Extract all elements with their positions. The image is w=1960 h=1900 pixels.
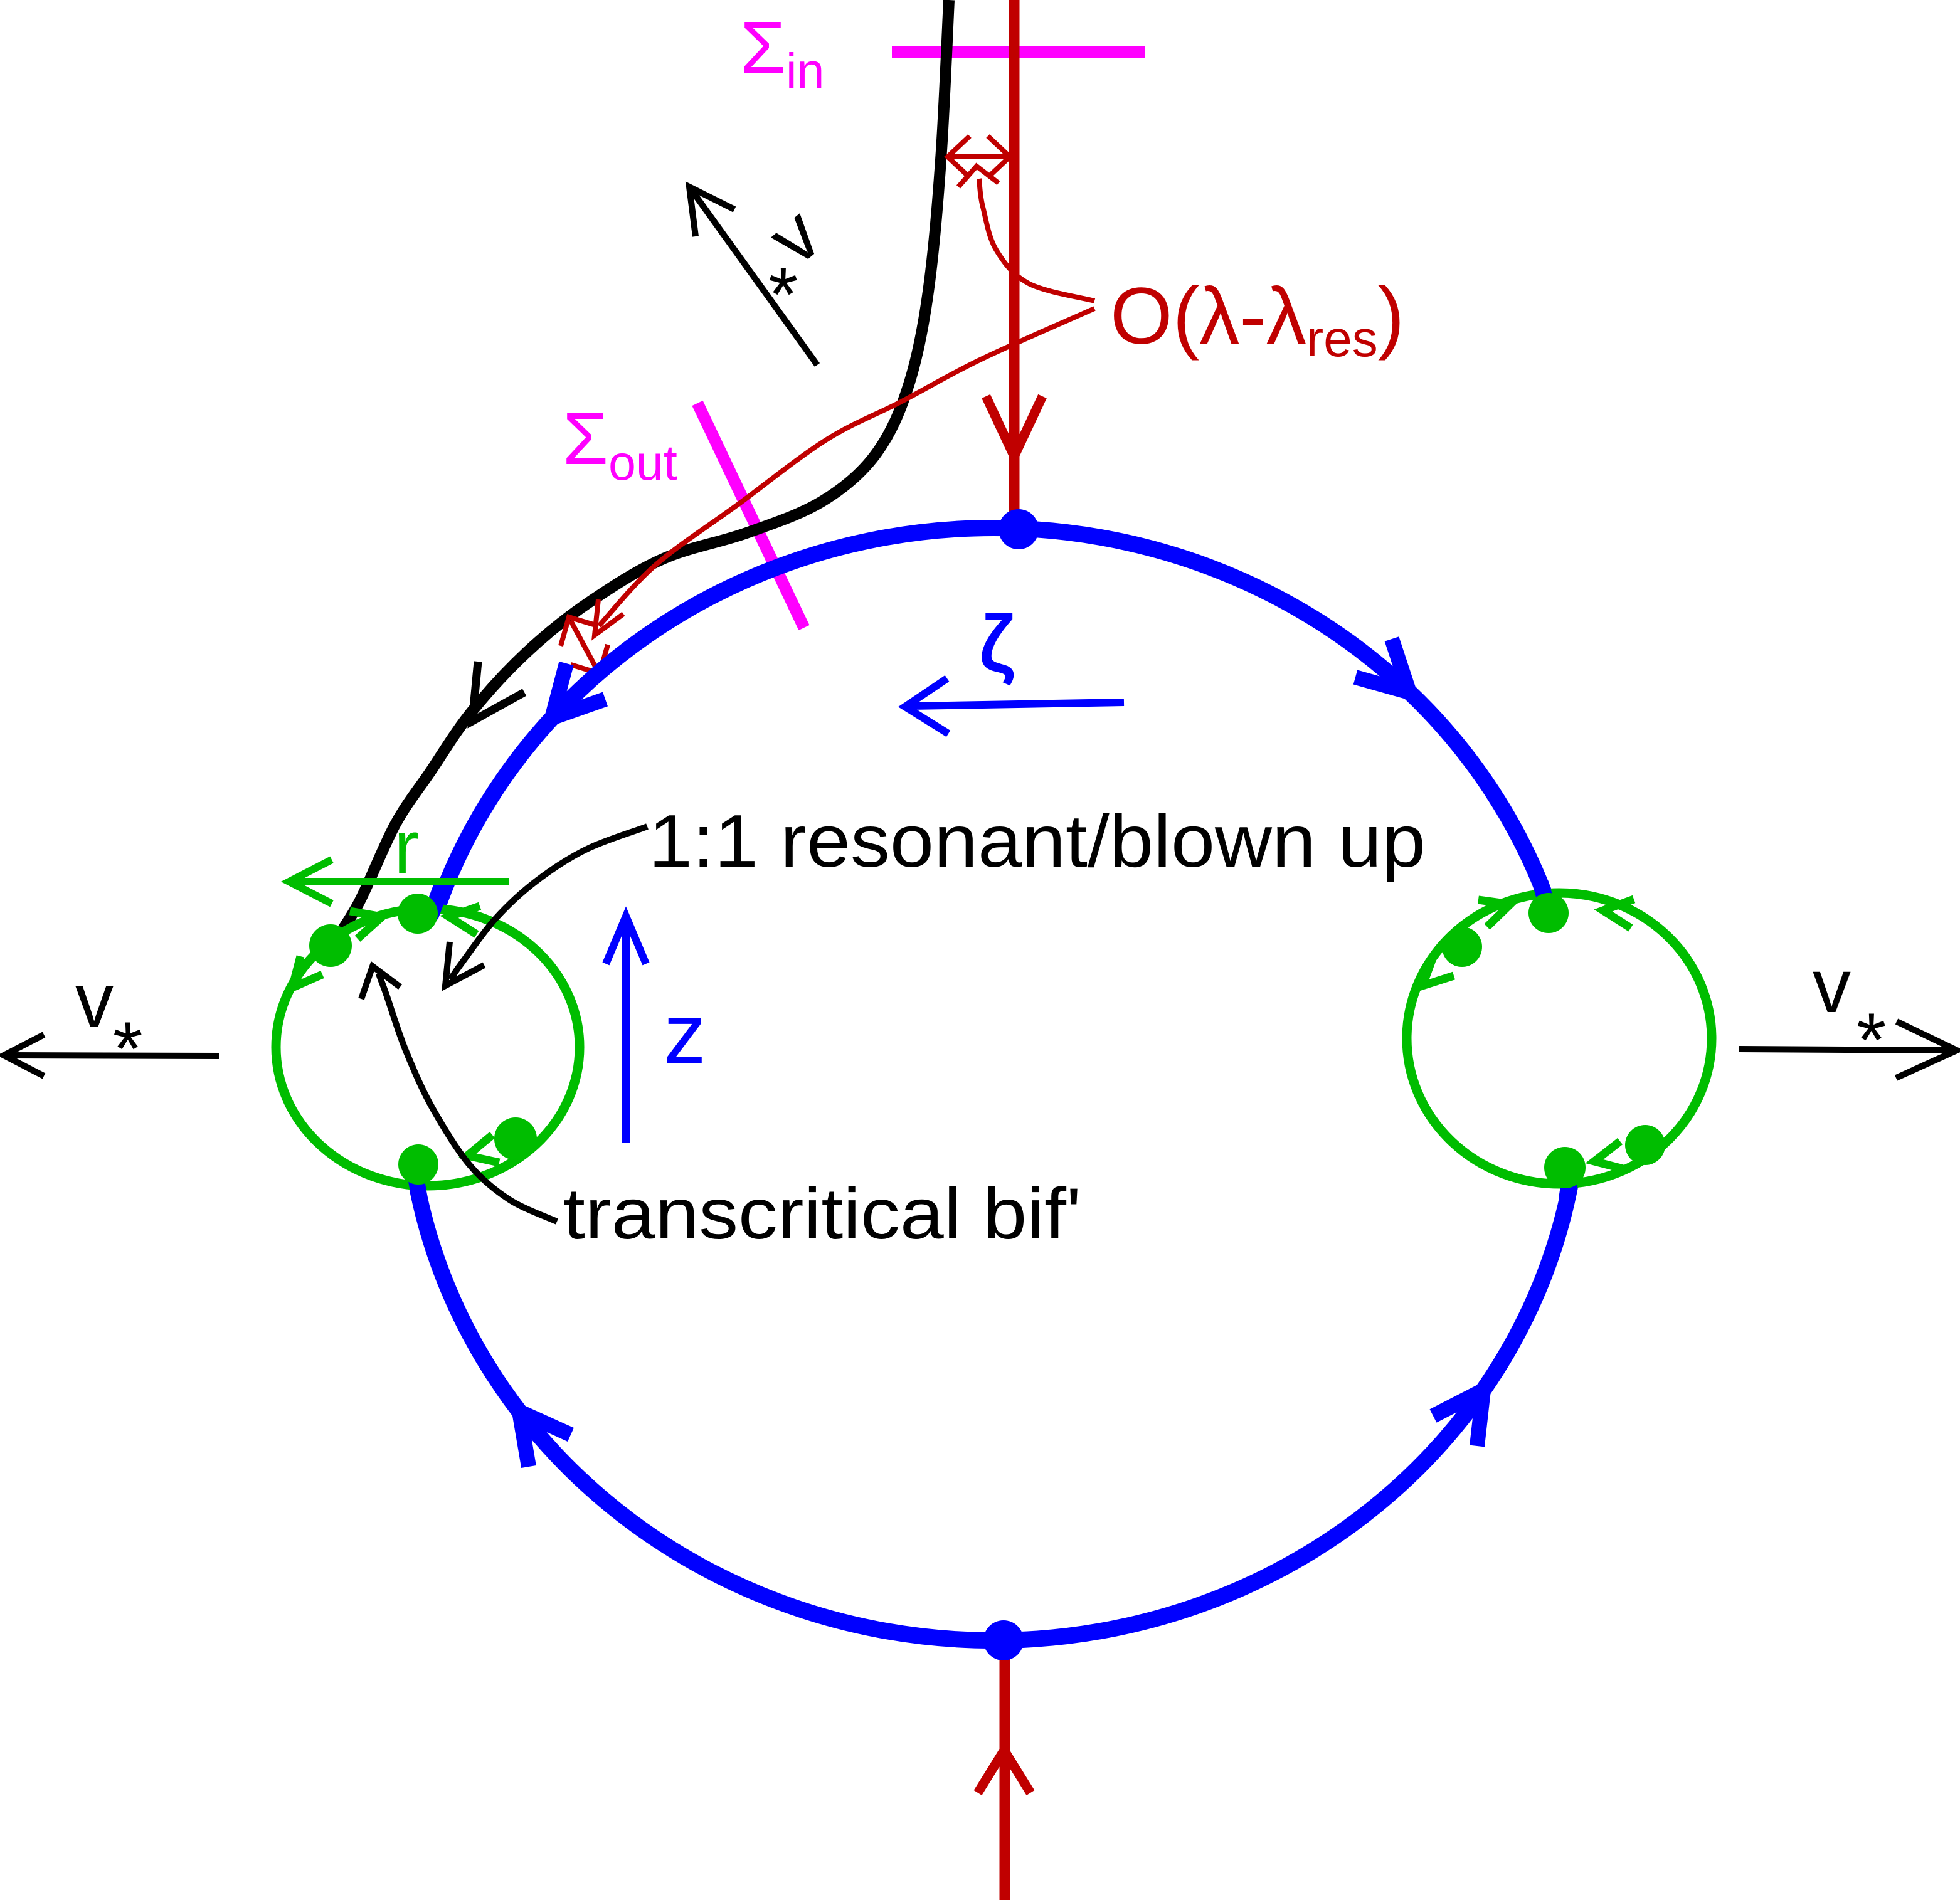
- green chevron left circle left side (down-left): [292, 956, 322, 988]
- green equilibrium dot, left circle lower-right: [494, 1117, 537, 1160]
- upper head of lower double arrow: [561, 617, 598, 646]
- svg-text:1:1 resonant/blown up: 1:1 resonant/blown up: [649, 800, 1426, 883]
- green chevron right circle left side (down-left): [1422, 955, 1454, 986]
- svg-text:*: *: [768, 251, 798, 337]
- svg-text:Σin: Σin: [740, 6, 824, 98]
- green chevron left circle top-right arc (toward top dot): [449, 906, 480, 934]
- arrowhead of transcritical leader: [361, 966, 400, 999]
- green equilibrium dot, right circle lower-right: [1625, 1125, 1665, 1165]
- svg-text:r: r: [394, 805, 419, 889]
- svg-text:*: *: [113, 1006, 142, 1091]
- blue equator stub into left circle top dot: [430, 883, 443, 917]
- arrowhead of right v* arrow: [1896, 1021, 1957, 1078]
- red thin leader curve from O(lambda) label to gap at Sigma_out: [599, 309, 1094, 626]
- blue z-axis arrow (pointing up): [622, 922, 630, 1143]
- arrowhead on black trajectory (down-left): [472, 662, 524, 721]
- green equilibrium dot, left circle top: [398, 894, 438, 934]
- section Sigma_in (magenta transversal line at top): [892, 46, 1145, 58]
- blue equilibrium dot at bottom of circle: [983, 1620, 1024, 1660]
- svg-text:v: v: [1813, 943, 1851, 1028]
- arrowhead of upper red leader (pointing up): [958, 166, 999, 187]
- svg-text:v: v: [75, 958, 114, 1043]
- green equilibrium dot, right circle bottom: [1544, 1147, 1586, 1188]
- blue equilibrium dot at top of circle: [999, 509, 1039, 549]
- green chevron right circle top-left arc (toward top dot): [1478, 900, 1510, 927]
- v* direction arrow far right (pointing right): [1739, 1049, 1951, 1050]
- blue chevron lower-left (flow up-left): [519, 1412, 571, 1467]
- black thin leader from label transcritical bif to left green circle: [379, 974, 557, 1222]
- black trajectory curve (singular orbit from Sigma_in to blown-up circle): [331, 0, 949, 947]
- green equilibrium dot, left circle bottom: [398, 1144, 438, 1185]
- svg-text:transcritical bif': transcritical bif': [563, 1174, 1081, 1254]
- blue equator stub out of left circle bottom dot: [413, 1159, 420, 1199]
- svg-text:z: z: [664, 986, 706, 1081]
- green chevron right circle top-right arc (toward top dot): [1603, 899, 1634, 928]
- green chevron right circle bottom (toward bottom dot): [1594, 1141, 1626, 1169]
- svg-text:*: *: [1857, 997, 1886, 1082]
- v* direction arrow top-left (diagonal): [692, 191, 817, 365]
- svg-text:O(λ-λres): O(λ-λres): [1110, 272, 1404, 367]
- blue arrowhead of zeta axis: [905, 678, 948, 734]
- arrowhead of 1:1 leader: [445, 942, 484, 986]
- black thin leader from label 1:1 resonant/blown up to left green circle: [450, 826, 647, 979]
- arrowhead of left v* arrow: [4, 1035, 44, 1076]
- red strong stable fiber entering from top (W^s of upper equilibrium): [1009, 0, 1020, 513]
- right head of top double arrow: [988, 136, 1010, 177]
- red thin leader curve from O(lambda) label to gap at Sigma_in: [979, 179, 1094, 301]
- blue equator stub out of right circle bottom dot: [1567, 1159, 1573, 1199]
- right green resonant circle: [1407, 893, 1712, 1184]
- green r-axis arrow (pointing left): [295, 878, 509, 885]
- red double-headed arrow (gap between trajectory and circle near Sigma_out): [571, 621, 598, 671]
- section Sigma_out (magenta transversal line, diagonal): [697, 403, 804, 628]
- green equilibrium dot, right circle top: [1528, 893, 1569, 933]
- red double-headed arrow (gap between trajectory and W^s near Sigma_in): [950, 154, 1007, 159]
- green chevron left circle top-left arc (toward top dot): [350, 911, 382, 939]
- svg-text:Σout: Σout: [563, 398, 677, 490]
- blue equator stub into right circle top dot: [1540, 883, 1550, 917]
- green equilibrium dot, left circle upper-left: [309, 924, 352, 967]
- green equilibrium dot, right circle upper-left: [1442, 927, 1482, 967]
- blue chevron upper-left (flow down-left): [552, 663, 605, 718]
- lower head of lower double arrow: [571, 645, 608, 673]
- arrowhead of lower red leader (down-left): [595, 599, 623, 635]
- blue blown-up sphere equator circle: [407, 528, 1580, 1640]
- left green resonant circle (1:1 resonant/blown up): [276, 909, 580, 1186]
- arrowhead of diagonal v* arrow: [689, 187, 734, 236]
- blue chevron upper-right (flow down-right): [1355, 639, 1409, 692]
- arrowhead on bottom red fiber (up): [978, 1750, 1030, 1793]
- green arrowhead of r axis: [289, 860, 332, 904]
- blue chevron lower-right (flow up-right): [1433, 1390, 1483, 1446]
- v* direction arrow far left (pointing left): [10, 1055, 219, 1056]
- green chevron left circle bottom (toward bottom dot): [467, 1135, 499, 1163]
- left head of top double arrow: [948, 136, 970, 177]
- red strong unstable fiber leaving bottom equilibrium: [1000, 1655, 1010, 1900]
- arrowhead on top red fiber (down): [986, 396, 1042, 457]
- blue arrowhead of z axis: [606, 916, 646, 964]
- svg-text:ζ: ζ: [980, 601, 1014, 687]
- blue zeta-axis arrow (pointing left): [911, 702, 1124, 706]
- label v* (rotated, top-left): [752, 191, 836, 281]
